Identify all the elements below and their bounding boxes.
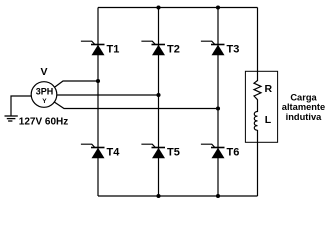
inductor L — [254, 112, 272, 131]
resistor R — [254, 81, 273, 100]
svg-text:T4: T4 — [107, 147, 121, 159]
svg-text:L: L — [265, 114, 272, 126]
node bottom rail / leg2 — [156, 194, 160, 198]
node bottom rail / leg3 — [216, 194, 220, 198]
wire load branch bottom — [257, 130, 259, 196]
svg-text:altamente: altamente — [282, 102, 325, 112]
wire bottom rail — [98, 195, 258, 197]
wire phase C (bottom) — [54, 102, 219, 109]
node phase B / leg2 — [156, 93, 160, 97]
load box — [245, 71, 277, 142]
node top rail / leg2 — [156, 5, 160, 9]
svg-text:Y: Y — [42, 98, 47, 105]
svg-text:3PH: 3PH — [36, 87, 54, 97]
wire top rail — [98, 7, 258, 9]
svg-text:indutiva: indutiva — [286, 112, 322, 122]
thyristor T3 — [201, 41, 239, 55]
label Carga altamente indutiva — [282, 92, 325, 122]
wire leg 2 (T2/T5) — [158, 8, 160, 197]
svg-text:T3: T3 — [227, 43, 240, 55]
wire load branch vertical top — [257, 8, 259, 82]
svg-text:R: R — [265, 83, 273, 95]
wire load branch middle — [257, 100, 259, 113]
thyristor T1 — [81, 41, 119, 55]
thyristor T4 — [81, 144, 120, 158]
node phase A / leg1 — [96, 79, 100, 83]
node top rail / leg3 — [216, 5, 220, 9]
svg-text:T5: T5 — [167, 147, 180, 159]
wire phase A (top) — [54, 81, 99, 88]
wire leg 3 (T3/T6) — [217, 8, 219, 197]
svg-text:Carga: Carga — [290, 92, 317, 102]
source V1 3PH — [31, 66, 57, 107]
wire leg 1 (T1/T4) — [97, 8, 99, 197]
wire phase B (middle) — [57, 94, 159, 96]
svg-text:T1: T1 — [107, 43, 120, 55]
wire source to ground — [11, 96, 31, 116]
svg-text:T2: T2 — [167, 43, 180, 55]
thyristor T5 — [141, 144, 179, 158]
svg-text:T6: T6 — [227, 147, 240, 159]
svg-text:V: V — [40, 66, 47, 78]
thyristor T2 — [141, 41, 179, 55]
node phase C / leg3 — [216, 106, 220, 110]
svg-text:127V 60Hz: 127V 60Hz — [19, 117, 68, 128]
thyristor T6 — [201, 144, 239, 158]
ground — [5, 116, 18, 121]
